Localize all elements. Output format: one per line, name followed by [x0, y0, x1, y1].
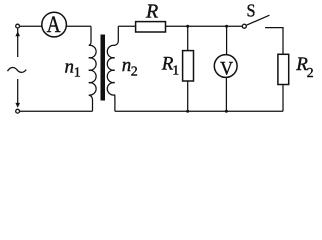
svg-text:n: n [65, 57, 75, 78]
svg-text:1: 1 [74, 66, 81, 81]
svg-text:2: 2 [131, 65, 138, 80]
svg-text:V: V [220, 58, 234, 79]
svg-text:2: 2 [307, 66, 314, 81]
svg-text:R: R [145, 1, 158, 23]
svg-text:S: S [247, 1, 256, 21]
svg-text:A: A [47, 12, 61, 37]
svg-text:1: 1 [172, 64, 179, 79]
